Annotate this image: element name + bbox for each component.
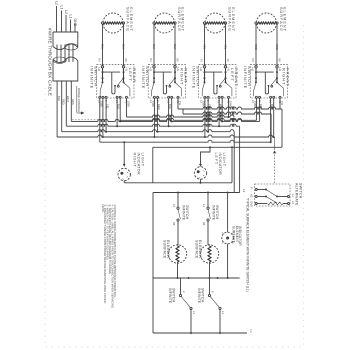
surface element E2 coil [155, 22, 174, 24]
BX cable wires through break [56, 45, 58, 63]
svg-text:YEL: YEL [106, 104, 110, 109]
typical pilot switch at x=180.5 [180, 278, 182, 294]
svg-text:ELEMENT: ELEMENT [129, 7, 133, 32]
infinite switch S3 top bar [205, 71, 223, 73]
bus wire y=137.0 [57, 135, 274, 137]
svg-text:RK: RK [278, 59, 281, 63]
svg-text:YK: YK [226, 59, 229, 63]
svg-text:SWITCH: SWITCH [247, 66, 252, 87]
svg-text:H1: H1 [227, 68, 231, 72]
svg-text:BLU: BLU [117, 104, 121, 109]
typical branch wire at x=208.0 [207, 193, 209, 208]
BX cable lower sheath box [53, 60, 78, 82]
svg-text:H1: H1 [176, 68, 180, 72]
typical circuit mid rail [153, 277, 240, 279]
svg-text:BLU: BLU [121, 44, 125, 49]
left feeder bends from BX cable to buses [70, 81, 72, 121]
infinite switch S1 terminal H2 [101, 66, 103, 68]
infinite switch S4 right contact stack [276, 68, 278, 83]
svg-text:SURFACE: SURFACE [231, 226, 235, 243]
svg-text:YU: YU [200, 59, 203, 63]
svg-text:FRONT: FRONT [285, 68, 290, 87]
svg-text:BK: BK [124, 59, 127, 63]
left indicator light bottom stem [200, 179, 202, 183]
infinite switch S2 left contact stack [153, 68, 155, 83]
element E4 left lead wire [255, 24, 257, 66]
svg-text:CONTROLS. WIRING PROBLEMS CAN: CONTROLS. WIRING PROBLEMS CAN CAUSE IMPR… [113, 205, 117, 298]
svg-text:BLK: BLK [152, 44, 156, 49]
BX cable upper opening ellipse [65, 44, 78, 50]
supply wire L1 (lead-in 4) [70, 20, 72, 33]
surface element E3 coil [206, 22, 225, 24]
svg-text:P: P [211, 291, 215, 293]
wire to element [208, 221, 210, 245]
wire to element [177, 221, 180, 245]
infinite switch S4 terminal H1 [276, 66, 278, 68]
typical surface element coil [208, 246, 211, 262]
svg-text:BLK: BLK [173, 44, 177, 49]
surface element E1 coil [104, 22, 123, 24]
bus wire y=131.7 [62, 130, 235, 132]
typical infinite switch contact [177, 207, 179, 209]
svg-text:INFINITE: INFINITE [182, 205, 186, 221]
svg-text:LEFT: LEFT [214, 153, 218, 165]
typical pilot switch at x=209.5 [209, 278, 211, 294]
infinite switch S4 heater loop [265, 72, 268, 94]
svg-text:Y-BK: Y-BK [126, 101, 130, 107]
svg-text:BLK: BLK [57, 96, 61, 101]
element E2 left lead wire [153, 24, 155, 66]
right indicator light bottom stem [123, 181, 125, 183]
svg-text:SURFACE: SURFACE [125, 7, 129, 32]
svg-text:RED: RED [62, 99, 66, 105]
typical circuit left rail [152, 193, 154, 334]
BX cable lower sheath wavy break edge [53, 57, 78, 63]
svg-text:Y-BK: Y-BK [228, 101, 232, 107]
svg-text:L2: L2 [64, 10, 68, 14]
infinite switch S2 terminal H2 [153, 66, 155, 68]
infinite switch S4 left blade [254, 83, 256, 91]
right staircase: bus109 corner down [281, 109, 283, 147]
svg-text:SWITCH: SWITCH [93, 66, 98, 87]
svg-text:ELEMENT: ELEMENT [181, 7, 185, 32]
infinite switch S2 bottom terminals [153, 96, 155, 98]
infinite switch S1 heater loop [112, 72, 115, 94]
svg-text:ELEMENT: ELEMENT [166, 240, 170, 259]
supply wire L1 (lead-in 2) [61, 11, 63, 33]
svg-text:SWITCH: SWITCH [201, 288, 205, 303]
infinite switch S1 terminal H1 [122, 66, 124, 68]
infinite switch S1 right contact stack [123, 68, 125, 83]
infinite switch S2 heater loop [163, 72, 166, 94]
svg-text:INFINITE: INFINITE [168, 288, 172, 304]
svg-text:YEL: YEL [223, 44, 227, 50]
svg-text:RANGE CONSOLE: RANGE CONSOLE [77, 88, 81, 113]
svg-text:ELEMENT: ELEMENT [198, 240, 202, 259]
indicator loop riser to bus [231, 147, 233, 183]
riser feeding typical circuit L2 from bus126 [239, 126, 241, 192]
infinite switch S2 top bar [154, 71, 172, 73]
surface element E4 terminals [255, 22, 257, 24]
svg-text:BK: BK [176, 59, 179, 63]
svg-text:TYPICAL SURFACE ELEMENT WITH I: TYPICAL SURFACE ELEMENT WITH INFINITE SW… [245, 198, 249, 292]
right staircase: bus114 corner down [270, 114, 272, 142]
svg-text:Y-R: Y-R [280, 101, 284, 105]
svg-text:FRONT: FRONT [234, 68, 239, 87]
svg-text:Y-BK: Y-BK [151, 101, 155, 107]
svg-text:SURFACE: SURFACE [279, 7, 283, 32]
infinite switch S2 right blades [169, 78, 175, 85]
typical surface-element indicator light [222, 232, 234, 244]
supply wire L2 (lead-in 3) [65, 15, 67, 32]
infinite switch S2 terminal H1 [174, 66, 176, 68]
infinite switch S2 dashed box [148, 65, 185, 98]
typical surface element coil [176, 246, 179, 262]
typical surface element dashed circle [168, 245, 186, 263]
svg-text:YEL: YEL [208, 104, 212, 109]
svg-text:L2: L2 [55, 1, 59, 5]
element E4 right lead wire [276, 24, 278, 66]
infinite switch S3 left blade [202, 83, 204, 91]
infinite switch S4 top bar [256, 71, 274, 73]
right indicator light lamp [118, 168, 130, 180]
infinite switch S3 dashed box [199, 65, 236, 98]
svg-text:SURFACE: SURFACE [227, 7, 231, 32]
bus wire y=117.0 [127, 115, 235, 117]
supply wire L2 (lead-in 1) [56, 6, 58, 32]
switch output drop wires [99, 98, 101, 142]
step feeder from bus109 to bus114 [182, 109, 184, 114]
svg-text:H2: H2 [250, 194, 254, 198]
left indicator light feed wire [201, 147, 211, 164]
svg-text:SURFACE: SURFACE [194, 240, 198, 259]
svg-text:LIGHT: LIGHT [222, 153, 226, 167]
element to mid rail wire [177, 262, 179, 278]
alternate switch dashed box [255, 184, 291, 206]
typical infinite switch contact [207, 207, 209, 209]
svg-text:BLK: BLK [270, 104, 274, 109]
infinite switch S2 right contact stack [174, 68, 176, 83]
svg-text:BU: BU [149, 59, 152, 63]
BX cable lower opening ellipse [53, 57, 66, 63]
infinite switch S3 heater loop [214, 72, 217, 94]
alternate switch left terminals [255, 189, 257, 191]
scan border left dotted line [44, 88, 46, 347]
svg-text:RIGHT: RIGHT [133, 153, 137, 168]
svg-text:GRN: GRN [71, 99, 75, 105]
svg-text:SURFACE: SURFACE [177, 7, 181, 32]
svg-text:Y-BK: Y-BK [253, 101, 257, 107]
svg-text:WHT: WHT [219, 104, 223, 110]
scan border bottom dotted line [46, 346, 303, 348]
surface element E3 dashed circle [205, 13, 225, 33]
infinite switch S3 terminal H2 [203, 66, 205, 68]
BX cable upper sheath wavy break edge [53, 44, 78, 50]
infinite switch S1 dashed box [97, 65, 134, 98]
bus wire y=142.2 [100, 140, 271, 142]
console leader line with arrow [76, 86, 78, 113]
surface element E2 dashed circle [155, 13, 175, 33]
svg-text:ELEMENT: ELEMENT [283, 7, 287, 32]
infinite switch S1 left blade [100, 83, 102, 91]
svg-text:L1: L1 [69, 15, 73, 19]
svg-text:SWITCH: SWITCH [195, 66, 200, 87]
infinite switch S1 left contact stack [102, 68, 104, 83]
svg-text:LIGHT: LIGHT [141, 153, 145, 167]
element E1 left lead wire [102, 24, 104, 66]
right loop step-down wire [152, 147, 154, 183]
svg-text:SWITCH: SWITCH [298, 183, 302, 199]
svg-text:BLU: BLU [100, 44, 104, 49]
svg-text:Y-R: Y-R [178, 101, 182, 105]
bus wire y=121.4 [71, 119, 259, 121]
typical indicator to mid rail wire [227, 244, 229, 278]
svg-text:H2: H2 [172, 222, 176, 226]
infinite switch S4 right blades [271, 78, 277, 85]
svg-text:Y-BK: Y-BK [201, 101, 205, 107]
typical branch wire at x=178.0 [177, 193, 179, 208]
scan border right dotted line [303, 25, 305, 347]
infinite switch S1 right blades [118, 78, 124, 85]
typical surface element dashed circle [200, 245, 218, 263]
indicator return wire bottom [124, 182, 232, 184]
infinite switch S3 left contact stack [204, 68, 206, 83]
alternate switch heater zigzag [268, 202, 284, 205]
svg-text:INDICATOR: INDICATOR [137, 153, 141, 175]
svg-text:P: P [250, 187, 254, 189]
surface element E1 dashed circle [103, 13, 123, 33]
typical circuit bottom rail L1 [153, 332, 247, 334]
svg-text:INDICATOR: INDICATOR [238, 226, 242, 246]
element E2 right lead wire [174, 24, 176, 66]
alternate-switch dashed reference arrow [274, 137, 276, 150]
bus wire y=120.3 [120, 118, 256, 120]
svg-text:L1: L1 [249, 330, 253, 334]
svg-text:ALTERNATE: ALTERNATE [295, 183, 299, 206]
infinite switch S2 left blade [152, 83, 154, 91]
typical circuit L2 rail [153, 192, 240, 194]
left indicator light lamp [194, 167, 206, 179]
alternate switch blades [266, 190, 277, 197]
alternate switch right terminals [277, 196, 288, 198]
svg-text:L1: L1 [60, 6, 64, 10]
svg-text:GND: GND [250, 201, 254, 207]
pilot switch to bottom rail wire [219, 310, 221, 334]
svg-text:RU: RU [251, 59, 254, 63]
svg-text:#WIRE THROUGH BX CABLE: #WIRE THROUGH BX CABLE [48, 28, 53, 96]
svg-text:INFINITE: INFINITE [197, 288, 201, 304]
svg-text:RED: RED [157, 104, 161, 110]
surface element E4 coil [257, 22, 276, 24]
surface element E2 terminals [153, 22, 155, 24]
infinite switch S3 bottom terminals [204, 96, 206, 98]
svg-text:RED: RED [259, 104, 263, 110]
svg-text:H1: H1 [125, 68, 129, 72]
svg-text:H1: H1 [278, 68, 282, 72]
svg-text:INDICATOR: INDICATOR [218, 153, 222, 175]
bus wire y=109.0 [178, 107, 282, 109]
riser feeding typical circuit from bus131 [233, 132, 235, 193]
svg-text:INFINITE: INFINITE [212, 205, 216, 221]
svg-text:SWITCH: SWITCH [145, 66, 150, 87]
svg-text:BU: BU [98, 59, 101, 63]
svg-text:Y-BK: Y-BK [99, 101, 103, 107]
svg-text:REAR: REAR [183, 68, 188, 83]
svg-text:SURFACE: SURFACE [162, 240, 166, 259]
right indicator light feed wire [123, 142, 125, 164]
svg-text:L2: L2 [242, 189, 246, 193]
surface element E4 dashed circle [257, 13, 277, 33]
svg-text:BLK: BLK [168, 104, 172, 109]
svg-text:ELEMENT: ELEMENT [231, 7, 235, 32]
infinite switch S1 top bar [103, 71, 121, 73]
svg-text:P: P [182, 291, 186, 293]
svg-text:H2: H2 [202, 222, 206, 226]
infinite switch S3 terminal H1 [224, 66, 226, 68]
supply wire GND (lead-in 5) [74, 24, 76, 33]
element E3 left lead wire [204, 24, 206, 66]
BX cable upper sheath box [53, 32, 78, 48]
bus wire y=126.2 [66, 124, 239, 126]
surface element E1 terminals [101, 22, 103, 24]
element to mid rail wire [209, 262, 211, 278]
surface element E3 terminals [203, 22, 205, 24]
svg-text:GND: GND [73, 19, 77, 27]
svg-text:SWITCH: SWITCH [172, 288, 176, 303]
svg-text:ELEMENT: ELEMENT [235, 226, 239, 243]
typical indicator branch wire [227, 193, 229, 233]
bus wire y=114.0 [183, 112, 271, 114]
infinite switch S4 bottom terminals [255, 96, 257, 98]
infinite switch S4 dashed box [250, 65, 287, 98]
element E1 right lead wire [123, 24, 125, 66]
element E3 right lead wire [225, 24, 227, 66]
svg-text:RED: RED [254, 44, 258, 50]
svg-text:REAR: REAR [132, 68, 137, 83]
infinite switch S3 right contact stack [225, 68, 227, 83]
svg-text:WHT: WHT [66, 96, 70, 102]
svg-text:RED: RED [275, 44, 279, 50]
pilot switch to bottom rail wire [190, 310, 192, 334]
console dashed outline stub [72, 119, 105, 121]
infinite switch S1 bottom terminals [99, 96, 101, 98]
infinite switch S4 left contact stack [255, 68, 257, 83]
bus wire y=147.3 [153, 146, 282, 148]
infinite switch S3 right blades [220, 78, 226, 85]
svg-text:YEL: YEL [202, 44, 206, 50]
alternate switch row wires [257, 189, 266, 191]
infinite switch S4 terminal H2 [255, 66, 257, 68]
svg-text:SWITCH: SWITCH [185, 205, 189, 220]
svg-text:SWITCH: SWITCH [215, 205, 219, 220]
